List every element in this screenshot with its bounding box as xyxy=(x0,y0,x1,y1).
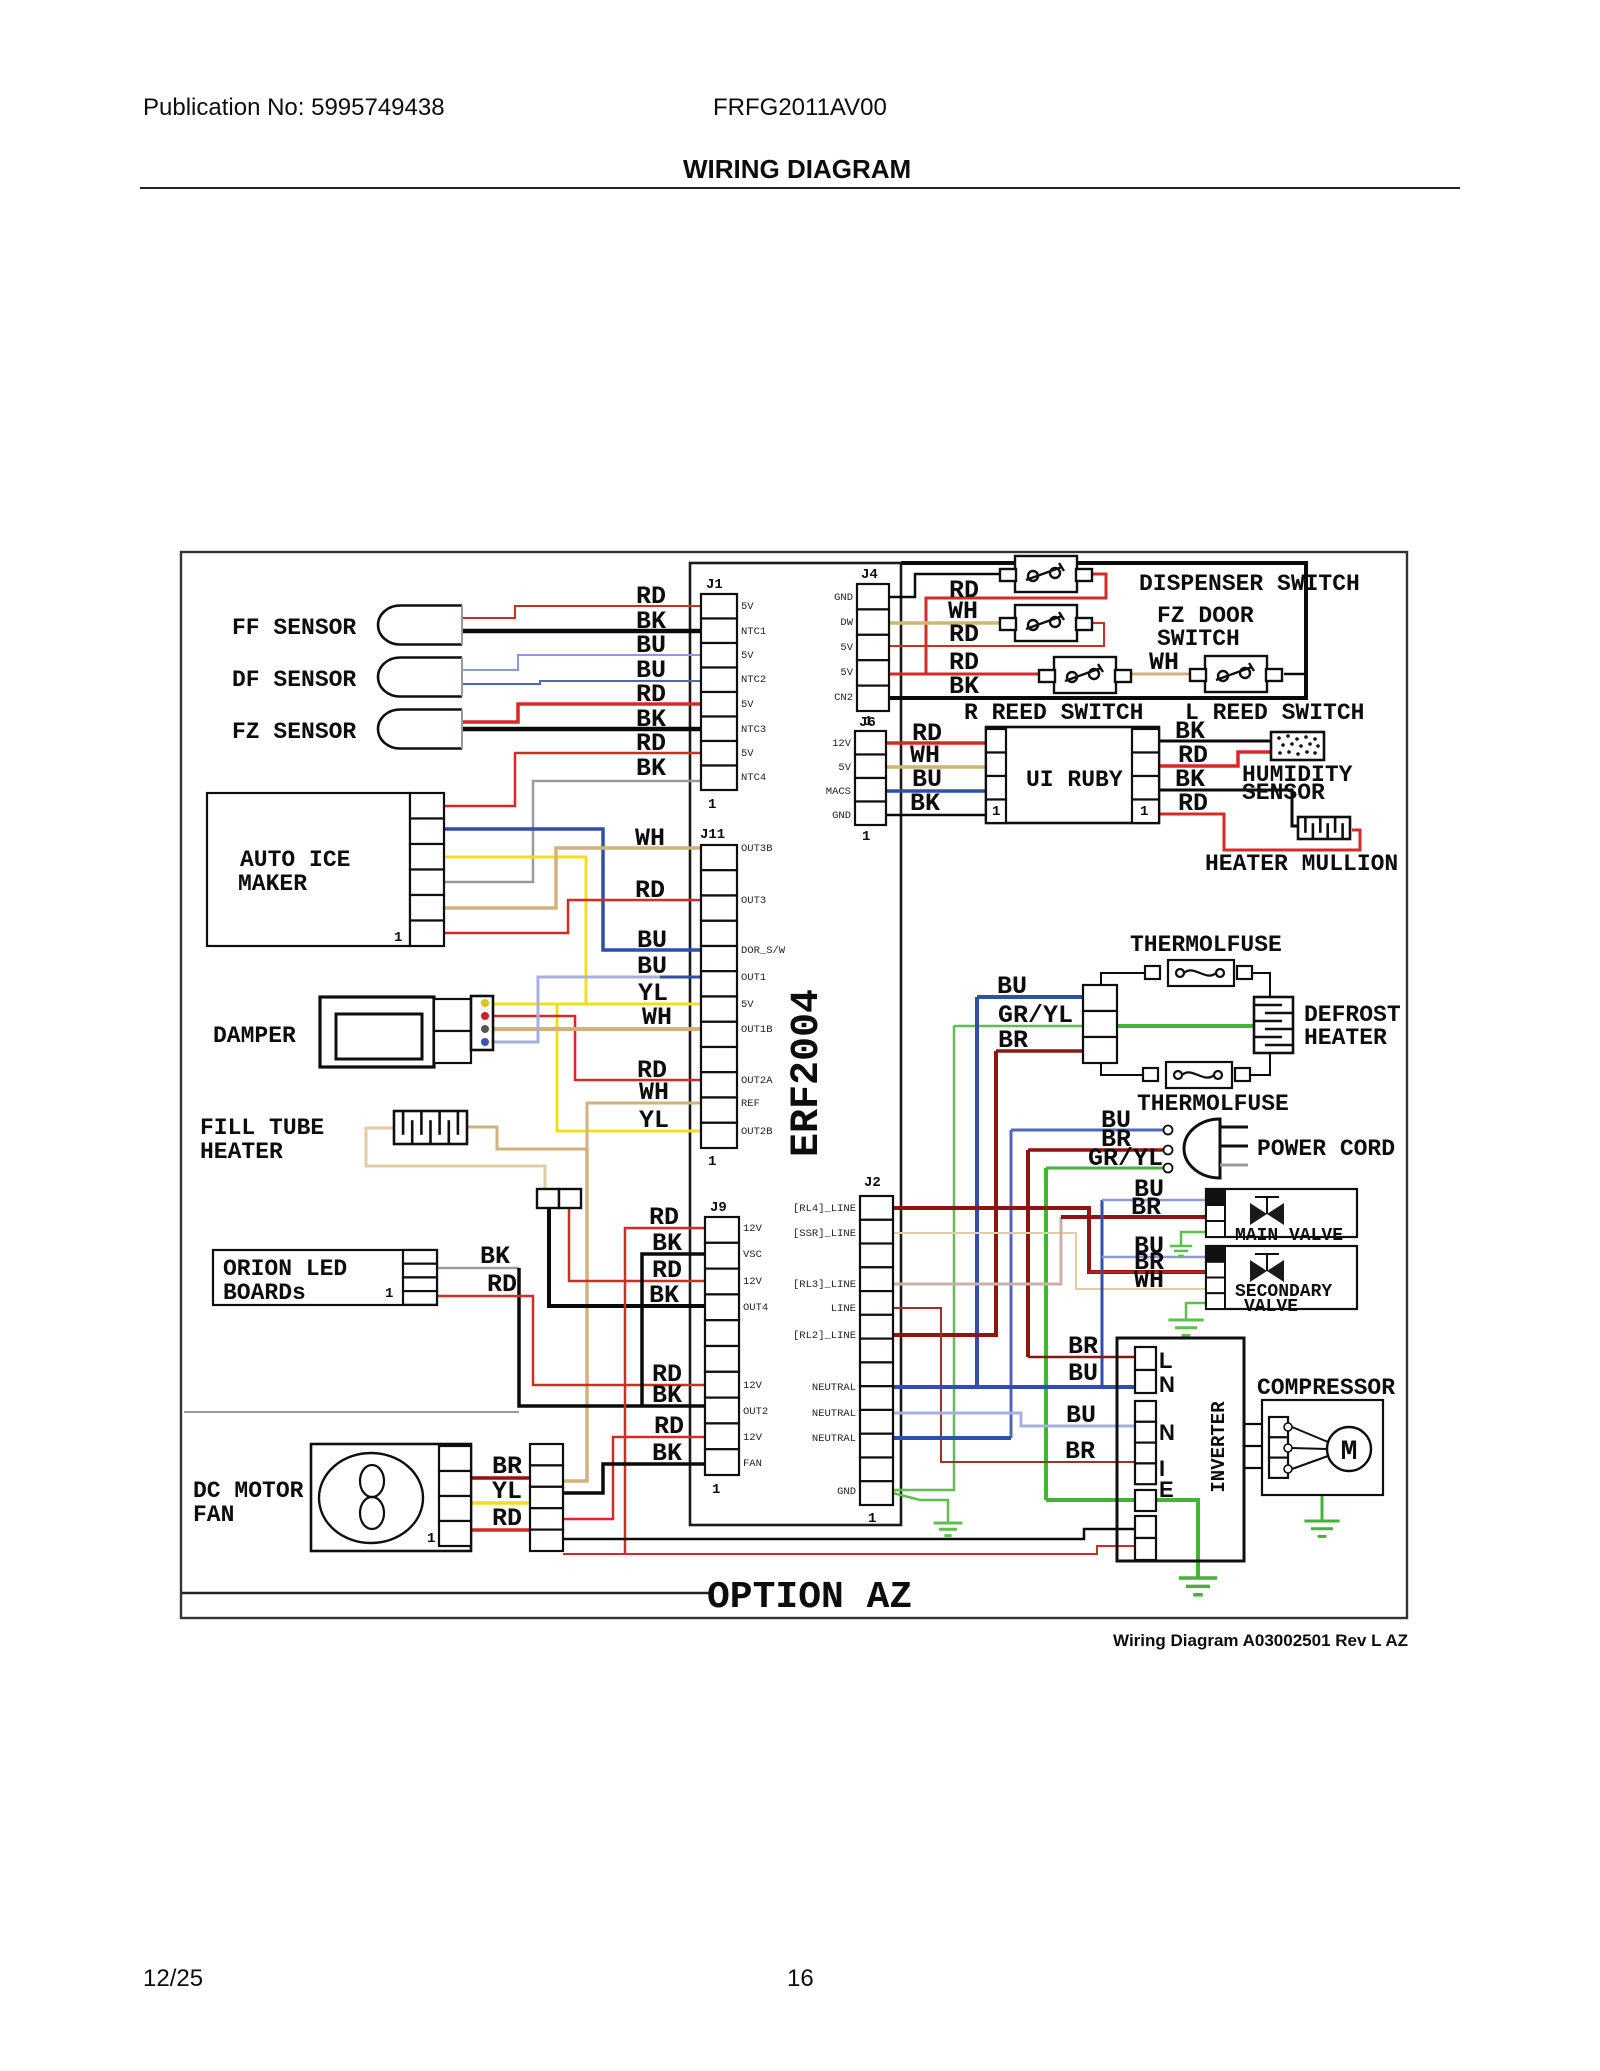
wire GRYL to power cord xyxy=(1046,1167,1163,1170)
wire BK inverter to compressor 2 xyxy=(1244,1445,1269,1447)
wire RD UI RUBY to heater mullion xyxy=(1159,814,1360,850)
DF sensor body xyxy=(378,658,462,697)
heater mullion element xyxy=(1298,817,1350,839)
connector inverter E header xyxy=(1135,1490,1156,1511)
inverter box xyxy=(1117,1338,1244,1561)
svg-text:VALVE: VALVE xyxy=(1244,1297,1298,1317)
svg-text:WH: WH xyxy=(639,1078,669,1107)
wire WH ice cell5 to J11 pin1 xyxy=(444,848,701,908)
svg-text:FZ SENSOR: FZ SENSOR xyxy=(232,719,356,745)
svg-text:REF: REF xyxy=(741,1098,760,1110)
wire RD J1 pin7 to ice maker cell1 xyxy=(444,753,701,806)
svg-text:RD: RD xyxy=(654,1412,684,1441)
wire BK bottom fuse to connector xyxy=(1101,1063,1143,1075)
svg-text:[RL4]_LINE: [RL4]_LINE xyxy=(793,1203,856,1215)
wire GRN vertical to J2 GND xyxy=(893,1026,954,1490)
svg-text:1: 1 xyxy=(712,1482,720,1498)
wire RD splice to J9 12V xyxy=(569,1204,705,1281)
svg-text:OUT2: OUT2 xyxy=(743,1406,768,1418)
damper inner box xyxy=(336,1014,422,1059)
wire YL branch down to J11 xyxy=(557,1004,701,1131)
wire BK UI RUBY to humidity sensor xyxy=(1159,740,1271,743)
svg-text:THERMOLFUSE: THERMOLFUSE xyxy=(1130,932,1282,958)
svg-text:5V: 5V xyxy=(741,999,754,1011)
wire BR to power cord xyxy=(1028,1148,1163,1152)
svg-text:BK: BK xyxy=(480,1242,510,1271)
wire BK stub L reed xyxy=(1284,673,1306,676)
wire BK long to inverter xyxy=(563,1529,1135,1539)
svg-text:1: 1 xyxy=(394,930,402,946)
svg-text:POWER CORD: POWER CORD xyxy=(1257,1136,1395,1162)
wire BK orion vertical to J9 xyxy=(519,1268,705,1406)
svg-text:L REED SWITCH: L REED SWITCH xyxy=(1185,700,1364,726)
svg-text:[RL2]_LINE: [RL2]_LINE xyxy=(793,1330,856,1342)
wire BK fuse top left xyxy=(1101,973,1145,985)
svg-text:L: L xyxy=(1159,1348,1172,1373)
svg-text:BU: BU xyxy=(637,926,667,955)
svg-text:WH: WH xyxy=(1134,1266,1164,1295)
svg-text:DW: DW xyxy=(840,617,853,629)
power cord plug xyxy=(1184,1119,1220,1178)
svg-text:12/25: 12/25 xyxy=(143,1965,203,1992)
defrost heater element xyxy=(1254,997,1293,1053)
svg-text:BR: BR xyxy=(1068,1332,1098,1361)
svg-text:5V: 5V xyxy=(741,601,754,613)
svg-text:OUT4: OUT4 xyxy=(743,1302,768,1314)
wire BR to inverter L xyxy=(1028,1356,1135,1359)
main valve xyxy=(1206,1189,1357,1237)
wire BK inverter to compressor 3 xyxy=(1244,1467,1269,1469)
ground main valve xyxy=(1170,1246,1192,1256)
svg-text:BU: BU xyxy=(1068,1359,1098,1388)
wire WH vertical to fan connector xyxy=(563,1149,587,1481)
UI RUBY board xyxy=(986,727,1159,823)
fan figure-8 xyxy=(360,1465,384,1497)
svg-text:WH: WH xyxy=(1149,648,1179,677)
wire BK inverter to compressor 1 xyxy=(1244,1423,1269,1425)
wire GRN compressor ground xyxy=(1321,1495,1324,1521)
svg-text:YL: YL xyxy=(639,1106,669,1135)
title rule xyxy=(140,187,1460,189)
wire BU valve vertical xyxy=(1101,1200,1104,1387)
dispenser switch SW1 xyxy=(1000,556,1092,592)
connector J4 xyxy=(857,584,889,711)
svg-text:1: 1 xyxy=(708,1154,716,1170)
wire BU vertical neutral xyxy=(975,997,979,1387)
svg-text:[RL3]_LINE: [RL3]_LINE xyxy=(793,1279,856,1291)
wire BU neutral to fuse connector xyxy=(977,995,1083,999)
damper pin dots xyxy=(481,999,489,1007)
svg-text:1: 1 xyxy=(427,1531,435,1547)
svg-text:M: M xyxy=(1341,1437,1358,1468)
inner bottom rule xyxy=(182,1592,709,1594)
svg-text:N: N xyxy=(1159,1372,1175,1397)
svg-text:J4: J4 xyxy=(861,567,878,583)
wire GRN main valve ground xyxy=(1181,1232,1206,1246)
wire BR to main valve xyxy=(1061,1215,1206,1219)
svg-text:GND: GND xyxy=(834,592,853,604)
svg-text:BK: BK xyxy=(649,1281,679,1310)
svg-text:UI RUBY: UI RUBY xyxy=(1026,767,1123,793)
svg-text:BK: BK xyxy=(652,1381,682,1410)
ground compressor xyxy=(1304,1521,1339,1536)
wire WH J6 to UI RUBY xyxy=(886,765,986,769)
wire BU power cord vertical xyxy=(1010,1130,1013,1438)
svg-text:RD: RD xyxy=(492,1504,522,1533)
wire BK splice to J9 OUT4 xyxy=(549,1207,705,1306)
svg-text:16: 16 xyxy=(787,1965,814,1992)
wire BR vertical RL2 xyxy=(893,1051,996,1335)
diagram border xyxy=(181,552,1407,1618)
ground J2 GND xyxy=(934,1523,963,1536)
thermofuse F1 xyxy=(1145,960,1252,986)
wire YL damper pin1 to J11 xyxy=(489,1003,701,1006)
wire YL fan xyxy=(471,1501,530,1505)
svg-text:ORION LED: ORION LED xyxy=(223,1256,347,1282)
svg-text:5V: 5V xyxy=(741,748,754,760)
svg-text:Publication No: 5995749438: Publication No: 5995749438 xyxy=(143,94,445,121)
svg-text:HEATER: HEATER xyxy=(200,1139,283,1165)
svg-text:BOARDs: BOARDs xyxy=(223,1280,306,1306)
svg-text:OUT3B: OUT3B xyxy=(741,843,773,855)
svg-text:LINE: LINE xyxy=(831,1303,856,1315)
svg-text:AUTO ICE: AUTO ICE xyxy=(240,847,350,873)
connector defrost connector xyxy=(1083,985,1117,1063)
svg-text:COMPRESSOR: COMPRESSOR xyxy=(1257,1375,1395,1401)
wire BK J9 VSC to OUT2 xyxy=(642,1254,705,1406)
L reed switch SW4 xyxy=(1190,656,1282,692)
wire GRYL power cord vertical xyxy=(1044,1168,1048,1500)
wire RL3 line pink xyxy=(893,1217,1061,1284)
svg-text:VSC: VSC xyxy=(743,1249,762,1261)
svg-text:12V: 12V xyxy=(832,738,852,750)
svg-text:12V: 12V xyxy=(743,1223,763,1235)
ground inverter E xyxy=(1179,1578,1217,1595)
svg-text:5V: 5V xyxy=(838,762,851,774)
svg-text:CN2: CN2 xyxy=(834,692,853,704)
pin labels xyxy=(741,592,856,1498)
svg-text:BK: BK xyxy=(949,672,979,701)
wire BK J4 pin1 to dispenser switch xyxy=(889,574,1008,597)
svg-text:MAIN VALVE: MAIN VALVE xyxy=(1235,1226,1343,1246)
auto ice maker box xyxy=(207,793,410,946)
connector J1 xyxy=(701,594,737,790)
svg-text:BU: BU xyxy=(637,952,667,981)
wire RD FZ door loop to J4 pin3 xyxy=(889,623,1104,646)
svg-text:GR/YL: GR/YL xyxy=(1088,1144,1163,1173)
svg-text:J9: J9 xyxy=(710,1200,727,1216)
svg-text:OUT3: OUT3 xyxy=(741,895,766,907)
wire BK J6 to UI RUBY xyxy=(886,814,986,817)
svg-text:J11: J11 xyxy=(700,827,725,843)
svg-text:NTC2: NTC2 xyxy=(741,674,766,686)
svg-text:BK: BK xyxy=(910,789,940,818)
svg-text:OPTION AZ: OPTION AZ xyxy=(707,1576,912,1619)
svg-text:BK: BK xyxy=(652,1439,682,1468)
wire YL ice cell3 down xyxy=(444,857,586,1004)
svg-text:FF SENSOR: FF SENSOR xyxy=(232,615,356,641)
svg-text:WIRING DIAGRAM: WIRING DIAGRAM xyxy=(683,154,911,184)
svg-text:Wiring Diagram A03002501 Rev L: Wiring Diagram A03002501 Rev L AZ xyxy=(1113,1631,1408,1650)
wire WH damper pin3 to J11 xyxy=(489,1027,701,1031)
wire BU to power cord xyxy=(1011,1129,1163,1132)
svg-text:RD: RD xyxy=(635,876,665,905)
svg-text:5V: 5V xyxy=(840,667,853,679)
svg-text:12V: 12V xyxy=(743,1276,763,1288)
svg-text:RD: RD xyxy=(487,1270,517,1299)
connector compressor header xyxy=(1269,1417,1288,1478)
svg-text:YL: YL xyxy=(492,1477,522,1506)
wire WH fill tube left loop xyxy=(366,1128,545,1190)
wire FZ sensor RD to J1 pin5 xyxy=(462,704,701,722)
humidity sensor xyxy=(1271,732,1324,760)
wire BU to main valve xyxy=(1102,1199,1206,1202)
svg-text:THERMOLFUSE: THERMOLFUSE xyxy=(1137,1091,1289,1117)
wire color labels xyxy=(480,576,1208,1533)
svg-text:RD: RD xyxy=(949,620,979,649)
svg-text:NEUTRAL: NEUTRAL xyxy=(812,1408,856,1420)
svg-text:FILL TUBE: FILL TUBE xyxy=(200,1115,324,1141)
connector inverter NI header xyxy=(1135,1401,1156,1484)
connector ice maker header xyxy=(410,793,444,946)
wire FF sensor RD to J1 pin1 xyxy=(462,606,701,618)
wire BU damper pin4 to J11 xyxy=(489,977,660,1042)
svg-text:BR: BR xyxy=(1065,1437,1095,1466)
svg-text:DOR_S/W: DOR_S/W xyxy=(741,945,786,957)
wire BU neutral3 xyxy=(893,1436,1011,1440)
damper outer box xyxy=(320,997,434,1067)
connector orion header xyxy=(403,1250,437,1305)
wire RD fan xyxy=(471,1528,530,1532)
connector fan header xyxy=(439,1446,471,1546)
power cord terminals xyxy=(1164,1126,1173,1173)
svg-text:MACS: MACS xyxy=(826,786,851,798)
connector UI RUBY left header xyxy=(986,729,1006,823)
svg-text:HEATER: HEATER xyxy=(1304,1025,1387,1051)
wire RD long to inverter xyxy=(563,1546,1135,1554)
svg-text:E: E xyxy=(1159,1477,1174,1502)
svg-text:1: 1 xyxy=(868,1511,876,1527)
wire BK J1 pin8 to ice maker cell4 xyxy=(444,781,701,882)
svg-text:FAN: FAN xyxy=(193,1502,234,1528)
fill tube heater element xyxy=(394,1111,467,1144)
svg-text:OUT1B: OUT1B xyxy=(741,1024,773,1036)
svg-text:1: 1 xyxy=(385,1286,393,1302)
wire WH fill tube right to J11 xyxy=(467,1103,701,1149)
svg-text:BU: BU xyxy=(997,972,1027,1001)
svg-text:1: 1 xyxy=(862,829,870,845)
svg-text:ERF2004: ERF2004 xyxy=(785,989,830,1157)
wire BK UI RUBY to heater mullion xyxy=(1159,790,1298,826)
svg-text:NTC1: NTC1 xyxy=(741,626,766,638)
svg-text:BU: BU xyxy=(1066,1401,1096,1430)
wire RD line to inverter I xyxy=(893,1308,1135,1462)
wire BR power cord vertical xyxy=(1026,1150,1030,1357)
wire RD orion to J9 12V xyxy=(438,1296,705,1385)
fan ellipse xyxy=(319,1453,423,1543)
R reed switch SW3 xyxy=(1039,657,1131,693)
wire FZ sensor BK to J1 pin6 xyxy=(462,727,701,732)
svg-text:12V: 12V xyxy=(743,1380,763,1392)
FZ sensor body xyxy=(378,710,462,749)
svg-text:FAN: FAN xyxy=(743,1458,762,1470)
svg-text:5V: 5V xyxy=(741,650,754,662)
svg-text:N: N xyxy=(1159,1420,1175,1445)
FZ door switch SW2 xyxy=(1000,605,1092,641)
wire BU ice cell2 to J11 xyxy=(444,829,701,950)
svg-text:DF SENSOR: DF SENSOR xyxy=(232,667,356,693)
connector inverter aux header xyxy=(1135,1516,1156,1560)
svg-text:NTC3: NTC3 xyxy=(741,724,766,736)
wire BU neutral to valves xyxy=(893,1385,1135,1389)
wire BU to secondary valve xyxy=(1102,1256,1206,1259)
wire DF sensor BU to J1 pin3 xyxy=(462,655,701,670)
svg-text:OUT2B: OUT2B xyxy=(741,1126,773,1138)
wire BK fuse top right to heater xyxy=(1250,973,1270,999)
compressor motor lines xyxy=(1292,1427,1328,1469)
wire BK J4 pin5 long xyxy=(889,563,1306,698)
wire GRN secondary valve ground xyxy=(1186,1303,1206,1320)
wire BR RL2 to fuse connector xyxy=(996,1049,1083,1053)
connector J2 xyxy=(860,1196,893,1505)
secondary valve xyxy=(1206,1246,1357,1309)
ground secondary valve xyxy=(1168,1320,1203,1335)
svg-text:NEUTRAL: NEUTRAL xyxy=(812,1433,856,1445)
wire WH R reed to L reed xyxy=(1124,673,1190,676)
svg-text:J1: J1 xyxy=(706,577,723,593)
damper connector xyxy=(434,996,493,1063)
wire WH J4 pin2 to FZ door switch xyxy=(889,621,1008,625)
wire GRYL connector to heater xyxy=(1117,1024,1254,1028)
splice block xyxy=(537,1189,581,1208)
compressor box xyxy=(1262,1400,1383,1495)
wire GRN inverter E xyxy=(1046,1500,1198,1577)
wire FF sensor BK to J1 pin2 xyxy=(462,629,701,634)
wire BU neutral2 to inverter N xyxy=(893,1413,1135,1426)
connector fan harness connector xyxy=(530,1444,563,1551)
wire RD J9 pin1 long xyxy=(625,1228,705,1554)
wire BU damper tail to J11 xyxy=(660,976,701,979)
wire BK heater to bottom fuse xyxy=(1250,1051,1270,1075)
svg-text:1: 1 xyxy=(708,797,716,813)
svg-text:MAKER: MAKER xyxy=(238,871,307,897)
svg-text:R REED SWITCH: R REED SWITCH xyxy=(964,700,1143,726)
wire RD damper pin2 to J11 xyxy=(489,1016,701,1080)
wire RD J6 to UI RUBY xyxy=(886,741,986,745)
svg-text:1: 1 xyxy=(1140,804,1148,820)
connector J6 xyxy=(855,731,886,825)
wire BR fan xyxy=(471,1476,530,1480)
wire BU J6 to UI RUBY xyxy=(886,789,986,793)
svg-text:1: 1 xyxy=(992,804,1000,820)
connector J9 xyxy=(705,1217,739,1475)
compressor motor xyxy=(1327,1427,1371,1471)
wire DF sensor BU to J1 pin4 xyxy=(462,681,701,684)
wire RD ice cell6 to J11 xyxy=(444,900,701,933)
svg-text:DAMPER: DAMPER xyxy=(213,1023,296,1049)
svg-text:OUT2A: OUT2A xyxy=(741,1075,773,1087)
svg-text:RD: RD xyxy=(1178,789,1208,818)
svg-text:J6: J6 xyxy=(859,715,876,731)
svg-text:FRFG2011AV00: FRFG2011AV00 xyxy=(713,94,887,121)
svg-text:DC MOTOR: DC MOTOR xyxy=(193,1478,304,1504)
wire GRN J2 GND hook xyxy=(893,1493,948,1522)
svg-text:5V: 5V xyxy=(840,642,853,654)
wire RD dispenser loop to J4 pin3 xyxy=(926,574,1106,674)
FF sensor body xyxy=(378,606,462,645)
svg-text:OUT1: OUT1 xyxy=(741,972,766,984)
connector inverter LN header xyxy=(1135,1347,1156,1393)
svg-text:DISPENSER SWITCH: DISPENSER SWITCH xyxy=(1139,571,1360,597)
svg-text:BK: BK xyxy=(652,1229,682,1258)
svg-text:[SSR]_LINE: [SSR]_LINE xyxy=(793,1228,856,1240)
svg-text:GND: GND xyxy=(837,1486,856,1498)
svg-text:5V: 5V xyxy=(741,699,754,711)
wire RD RL4 to secondary valve xyxy=(1089,1271,1206,1273)
connector UI RUBY right header xyxy=(1132,729,1159,823)
wire GRYL to defrost heater xyxy=(954,1025,1083,1028)
wire gray stub left border xyxy=(184,1411,519,1413)
wire BK fan to J9 RAM xyxy=(563,1464,705,1493)
wire BK orion to J9 xyxy=(438,1267,519,1270)
inverter terminal letters xyxy=(1159,1348,1175,1502)
orion led boards box xyxy=(213,1250,437,1305)
connector J11 xyxy=(701,845,737,1148)
main board ERF2004 xyxy=(690,563,901,1525)
svg-text:NTC4: NTC4 xyxy=(741,772,766,784)
svg-text:12V: 12V xyxy=(743,1432,763,1444)
thermofuse F2 xyxy=(1143,1062,1250,1088)
wire RD J4 pin4 to R reed switch xyxy=(889,673,1048,676)
svg-text:SENSOR: SENSOR xyxy=(1242,780,1325,806)
svg-text:GND: GND xyxy=(832,810,851,822)
dc motor fan box xyxy=(311,1444,471,1551)
svg-text:BR: BR xyxy=(998,1026,1028,1055)
wire RD UI RUBY to humidity sensor xyxy=(1159,752,1271,766)
svg-text:NEUTRAL: NEUTRAL xyxy=(812,1382,856,1394)
svg-text:INVERTER: INVERTER xyxy=(1208,1401,1230,1493)
svg-text:HEATER MULLION: HEATER MULLION xyxy=(1205,851,1398,877)
wire WH SSR line xyxy=(893,1233,1206,1289)
svg-text:BK: BK xyxy=(636,754,666,783)
wire RD fan to J9 12V xyxy=(563,1437,705,1519)
svg-text:J2: J2 xyxy=(864,1175,881,1191)
svg-text:WH: WH xyxy=(635,824,665,853)
wire BR RL4 line xyxy=(893,1208,1206,1272)
svg-text:RD: RD xyxy=(649,1203,679,1232)
svg-text:BR: BR xyxy=(1131,1193,1161,1222)
svg-text:WH: WH xyxy=(642,1003,672,1032)
